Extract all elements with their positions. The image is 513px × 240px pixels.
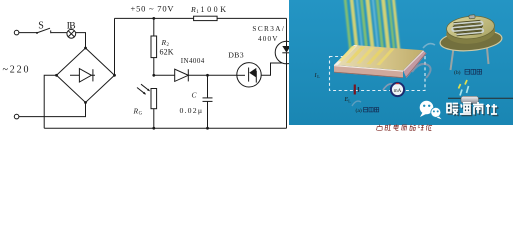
capacitor C 0.02u [180,75,213,128]
svg-text:mA: mA [394,89,402,94]
resistor R2 62K [151,18,174,75]
photoresistor can component [439,14,503,70]
brand text 暖通南社 [447,102,497,115]
diode inside bridge [70,69,95,82]
top face [446,14,496,40]
body side [445,19,496,46]
dashed measurement box [330,57,426,91]
watermark squiggles [352,44,435,106]
meter mA [391,83,404,96]
diac DB3 [228,50,261,87]
blue photo illustration background [289,0,513,125]
svg-text:100K: 100K [201,5,227,14]
wire bridge left to bottom rail [44,75,56,128]
svg-text:R: R [133,107,139,116]
svg-text:IN4004: IN4004 [181,57,205,65]
stove logo: steam dashes [459,80,469,96]
lamp LB [67,21,76,38]
svg-text:(b): (b) [454,69,461,76]
wire mid horizontal [154,74,237,76]
svg-text:R: R [190,5,196,14]
svg-text:L: L [348,98,351,103]
svg-text:G: G [139,112,143,117]
svg-text:DB3: DB3 [228,50,243,59]
bridge rectifier diamond [57,48,115,103]
svg-text:400V: 400V [258,35,278,43]
diode IN4004 [175,57,205,81]
wire bridge right to top rail [114,18,116,75]
red caption below [376,125,432,131]
node bridge left [55,74,58,77]
wire diac to gate [261,63,285,75]
serpentine electrode silver [452,21,484,34]
label (a) schematic caption [356,107,379,114]
WeChat icon [420,101,442,120]
svg-text:62K: 62K [160,47,174,56]
node bridge top [84,47,87,50]
label (b) outline caption [454,69,482,76]
svg-text:L: L [317,74,320,79]
svg-text:C: C [192,90,198,99]
node bottom rail RG [152,127,155,130]
photoresistor RG [133,84,157,128]
notch tab [469,15,475,19]
node bottom rail cap [206,127,209,130]
photosensitive plate 3D slab [334,45,427,78]
wire lamp to bridge top [76,33,86,48]
node bridge right [113,74,116,77]
svg-text:0.02μ: 0.02μ [180,106,203,115]
wire top rail [115,17,287,19]
svg-text:S: S [38,20,44,31]
lead right [487,48,489,64]
lead left [451,48,454,70]
switch S [36,20,51,34]
svg-text:(a): (a) [356,107,362,114]
flange [439,28,503,53]
node junction diode-R2 [152,74,155,77]
svg-text:+50 ~ 70V: +50 ~ 70V [131,3,175,13]
brand text shadow [448,103,498,116]
wire terminal to switch [19,32,37,34]
svg-text:SCR3A/: SCR3A/ [252,25,284,33]
light rays [344,0,401,60]
wire bridge bottom to AC terminal [19,103,86,117]
svg-text:LB: LB [67,21,76,31]
terminal AC top [14,30,19,35]
serpentine electrode dark shadow [453,21,484,34]
node bridge bottom [84,101,87,104]
stove logo: line and pot [448,96,513,103]
thyristor SCR 3A/400V [252,18,297,128]
battery E [344,85,359,104]
node junction cap [206,74,209,77]
resistor R1 100K [190,5,226,21]
wire switch to lamp [51,32,67,34]
node top rail tap [152,17,155,20]
svg-text:~220: ~220 [3,64,29,75]
wire bottom rail [44,127,286,129]
terminal AC bottom [14,114,19,119]
svg-text:1: 1 [196,10,199,15]
